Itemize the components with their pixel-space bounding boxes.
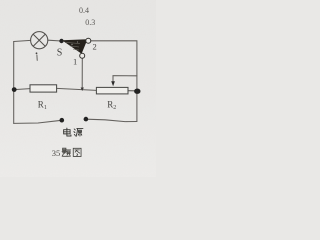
svg-text:35: 35 — [52, 148, 61, 158]
svg-text:0.4: 0.4 — [79, 6, 89, 15]
svg-text:0.3: 0.3 — [85, 18, 95, 27]
svg-text:S: S — [57, 48, 63, 59]
svg-text:1: 1 — [73, 57, 77, 67]
svg-text:2: 2 — [93, 42, 97, 52]
